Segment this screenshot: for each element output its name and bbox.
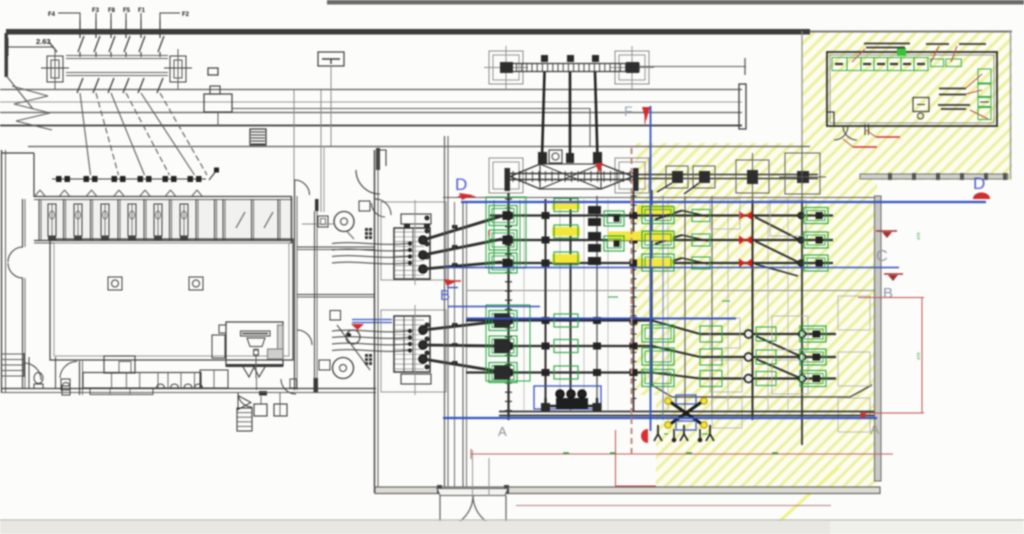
- vent dark grid: [365, 228, 368, 231]
- yard top inner line: [443, 197, 874, 199]
- road line 1: [0, 89, 742, 91]
- yard thin vertical x712: [711, 196, 713, 412]
- cell ground mark 4: [128, 237, 136, 242]
- building east wall: [374, 150, 376, 493]
- new bay stems: [673, 429, 675, 438]
- yellow hatch streak below yard wall: [770, 468, 838, 530]
- corridor wall: [294, 180, 296, 390]
- room door arc x80: [60, 361, 77, 378]
- pad square 1: [254, 404, 267, 416]
- lower circuit row 2 right: [700, 356, 836, 358]
- feeder drop line 2 to cell: [96, 93, 119, 175]
- transformer T2 LV cable bundle: [332, 330, 408, 332]
- new bay yellow dots: [665, 398, 671, 404]
- bus blobs column A: [504, 212, 513, 219]
- north boundary line over yellow area: [810, 31, 1012, 33]
- cell breaker 5: [163, 176, 169, 182]
- leader F2: [160, 13, 180, 20]
- small road box: [208, 68, 218, 75]
- empty cell slash 2: [264, 212, 273, 228]
- hall column 2: [189, 277, 203, 290]
- yard thin vertical x685: [684, 196, 686, 412]
- bottom table strip: [0, 521, 1024, 534]
- cell divider 5: [143, 199, 145, 240]
- red leader mesa: [970, 110, 988, 119]
- green marker square: [897, 48, 906, 56]
- red dim horizontal y297: [858, 297, 924, 299]
- NE entrance door arc: [356, 170, 380, 194]
- red leader top 1: [852, 49, 865, 62]
- arrow marker at breaker row end: [209, 171, 216, 180]
- leader F8: [110, 13, 112, 20]
- conduit elbow right: [588, 398, 597, 406]
- svg-text:C: C: [876, 248, 888, 265]
- transformer T2 bushings: [419, 326, 427, 334]
- cell breaker 1: [56, 176, 62, 182]
- dark Y feet under new bay: [654, 425, 662, 441]
- cell breaker 3: [112, 176, 118, 182]
- cell transformer 6: [180, 204, 188, 236]
- feeder drop line 6 to cell: [160, 93, 207, 175]
- blue line y267: [445, 267, 899, 269]
- leader F5: [125, 13, 127, 20]
- lower circuit row 1 right: [700, 333, 836, 335]
- fuse switch 4 upper: [124, 36, 130, 52]
- road vertical line a: [320, 90, 322, 212]
- leader F1: [140, 13, 142, 20]
- svg-text:B: B: [440, 287, 450, 304]
- cells bottom wall: [34, 240, 292, 242]
- cell ground mark 1: [48, 237, 56, 242]
- transformer T1 conservator: [401, 214, 431, 224]
- level marker above C: [876, 230, 897, 232]
- control room chair: [918, 113, 924, 119]
- cell breaker 2: [84, 176, 90, 182]
- fuse switch 1 lower: [77, 78, 83, 93]
- insulator dots column D upper: [798, 213, 804, 219]
- gantry G2 brace left: [510, 164, 540, 177]
- annex terminal dots upper: [425, 216, 429, 220]
- washroom hood trapezoid: [247, 338, 265, 347]
- cell transformer 5: [154, 204, 162, 236]
- new bay colorful cross: [666, 399, 706, 427]
- lower circuit row 3 right: [700, 377, 836, 379]
- cell door mark 7: [192, 190, 202, 196]
- conductor end fitting 1: [538, 152, 547, 164]
- yard faint foundation rails: [523, 199, 525, 410]
- pump circle with dot: [346, 330, 360, 344]
- blue line y318: [466, 318, 736, 320]
- boundary thick wall band (north): [6, 29, 810, 35]
- cell divider 7: [195, 199, 197, 240]
- leader F4: [58, 13, 80, 20]
- feeder line 1 upper: [79, 20, 81, 38]
- red annotation text door 1: [876, 136, 900, 138]
- fuse switch 3 upper: [109, 36, 115, 52]
- cell ground mark 2: [74, 237, 82, 242]
- fuse switch 2 lower: [93, 78, 99, 93]
- duct line NE: [302, 223, 334, 225]
- red arrow on conductor: [595, 163, 603, 173]
- red dim line y454: [471, 453, 893, 455]
- level marker above B: [884, 273, 903, 275]
- annotation text top 3: [959, 43, 986, 45]
- gantry G1 footing left: [489, 51, 523, 84]
- mid yard line: [466, 290, 874, 292]
- road line 3: [0, 125, 742, 127]
- annex door arc: [375, 199, 391, 215]
- sink fixture bottom-left: [61, 379, 70, 390]
- road break zigzag: [12, 86, 52, 130]
- feeder line 5 upper: [140, 20, 142, 38]
- road vertical line b: [293, 90, 295, 180]
- room wall x80: [79, 361, 81, 395]
- beam column square 3: [736, 160, 769, 193]
- transformer T2 HV lines: [423, 321, 502, 330]
- feeder line 4 upper: [125, 20, 127, 38]
- svg-text:470: 470: [916, 232, 921, 240]
- red dim corner at yellow edge: [616, 430, 657, 486]
- panel text marks: [835, 63, 843, 65]
- junction box with circle: [549, 150, 562, 163]
- bench band: [83, 373, 201, 389]
- west stairs: [2, 353, 24, 355]
- green equipment cluster U2: [554, 199, 578, 212]
- transformer T2 conservator: [401, 374, 431, 384]
- inner wall x315: [314, 211, 316, 393]
- red leader top 2: [931, 46, 939, 62]
- transformer T1 rail: [414, 200, 416, 285]
- green equipment cluster U7 (transformer bay lower): [489, 311, 517, 331]
- pad square 2: [274, 404, 287, 416]
- conductor drop 3: [595, 72, 598, 158]
- washroom door arc SE: [281, 379, 296, 394]
- beam tower square 2: [693, 166, 715, 188]
- green cluster U1 verticals: [493, 200, 495, 266]
- cell divider 1: [38, 199, 40, 240]
- transformer T2 body: [394, 316, 430, 372]
- door centre verticals: [472, 450, 474, 496]
- gantry G2 footing right: [615, 158, 649, 193]
- cells end wall: [291, 197, 293, 243]
- fuse switch 2 upper: [94, 36, 100, 52]
- cell breaker 6: [188, 176, 194, 182]
- annex terminal dots lower: [425, 323, 429, 327]
- lower circuit row 1 left: [466, 319, 652, 321]
- cell door mark 4: [114, 190, 124, 196]
- cell transformer 2: [74, 204, 82, 236]
- washroom left box small: [219, 325, 226, 333]
- lower circuit row 3 left: [466, 371, 652, 373]
- dimension 2.63 line with arrows: [8, 46, 54, 48]
- svg-text:F2: F2: [182, 12, 190, 18]
- svg-text:D: D: [455, 175, 467, 194]
- conductor drop 2: [569, 72, 572, 158]
- red leader door 2: [843, 139, 853, 147]
- svg-text:F1: F1: [138, 8, 146, 14]
- inner paving boundary with chamfers: [652, 190, 872, 397]
- svg-text:A: A: [870, 421, 880, 437]
- breaker row line: [52, 178, 206, 180]
- lower tie bus double line: [499, 411, 874, 413]
- annotation text right a: [939, 88, 966, 90]
- yard south double door arcs: [440, 496, 473, 528]
- new bay blue frames: [676, 395, 696, 404]
- west boundary wall vertical: [5, 33, 9, 77]
- red half disc at blue line bottom: [641, 429, 648, 443]
- yard fence second pair: [462, 202, 464, 487]
- hatched duct box: [250, 129, 266, 145]
- bench chair arcs: [157, 384, 165, 388]
- kerb line building north: [28, 146, 810, 148]
- annotation text mesa: [938, 104, 970, 106]
- yard beam row east: [638, 174, 818, 176]
- cells region tint: [40, 199, 291, 240]
- empty cell slash 1: [236, 212, 245, 228]
- insulator assembly right: [170, 56, 186, 82]
- green equipment cluster U1 (transformer bay upper): [489, 206, 517, 226]
- bus column A with ticks: [507, 193, 509, 420]
- yard vertical x545: [545, 199, 547, 410]
- signal box with flag: [204, 94, 232, 112]
- fuse switch 5 upper: [139, 36, 145, 52]
- cell door mark 6: [166, 190, 176, 196]
- porch stairs below building: [237, 408, 252, 431]
- bottom table edge line: [0, 519, 1024, 521]
- svg-text:A: A: [498, 424, 507, 439]
- red arrow under D left: [459, 193, 473, 200]
- cell door mark 3: [87, 190, 97, 196]
- svg-text:D: D: [973, 174, 985, 193]
- fence posts: [888, 173, 892, 180]
- feeder drop line 4 to cell: [126, 93, 170, 175]
- control building door arcs: [834, 126, 848, 140]
- cable route line from signal box: [232, 109, 590, 147]
- footing squares right yard: [710, 199, 740, 229]
- dark wall tick at corridor door: [315, 199, 319, 211]
- diagonal pipe: [337, 325, 370, 370]
- fuse switch 3 lower: [108, 78, 114, 93]
- feeder drop line 1 to cell: [80, 93, 91, 175]
- cell door mark 1: [35, 190, 45, 196]
- cells top wall: [34, 196, 292, 198]
- yard north fence: [860, 174, 1008, 179]
- yellow area left edge line: [801, 31, 803, 146]
- annex box lower: [381, 310, 446, 392]
- conductor clamps top: [541, 55, 548, 62]
- counter box in hall: [104, 356, 135, 373]
- right rooms divider wall 2: [297, 294, 375, 296]
- W basin mark: [243, 367, 265, 377]
- insulator assembly left: [47, 56, 63, 82]
- gantry G2 footing left: [489, 158, 523, 193]
- blue line y420: [443, 417, 877, 419]
- red dim vertical x922: [921, 298, 923, 414]
- control room table: [913, 98, 929, 112]
- yellow highlighted bus sections mid: [608, 232, 673, 241]
- red dim horizontal y413: [860, 412, 924, 414]
- corridor door arc: [295, 180, 310, 195]
- blue line y306: [448, 306, 540, 308]
- svg-text:F: F: [624, 103, 633, 119]
- fuse switch 6 upper: [158, 36, 164, 52]
- blue dash below red near T1: [447, 287, 458, 289]
- svg-text:2.63: 2.63: [36, 37, 51, 46]
- yard south door jambs: [439, 496, 441, 529]
- green equipment cluster U12: [800, 326, 826, 342]
- beam tower square 1: [666, 166, 688, 188]
- fan unit lower: [333, 358, 354, 379]
- pad drop line: [279, 393, 281, 416]
- T2 line clamps: [452, 323, 458, 327]
- toilet fixture bottom-left: [34, 373, 43, 384]
- NE entrance door post: [376, 148, 380, 170]
- red level triangle SE: [351, 324, 364, 330]
- red leader door 1: [866, 130, 876, 137]
- building top-left wall: [2, 152, 35, 154]
- feeder drop line 5 to cell: [141, 93, 195, 175]
- washroom valve: [253, 350, 258, 355]
- new bay green ticks: [664, 433, 668, 435]
- cell divider 11: [277, 199, 279, 240]
- cell transformer 1: [48, 204, 56, 236]
- right wall green cabinets: [978, 69, 991, 83]
- porch door arc: [238, 393, 252, 407]
- cell door mark 5: [140, 190, 150, 196]
- bus column B with ticks: [633, 191, 635, 412]
- survey marker: [318, 52, 344, 66]
- blue thin vertical x663: [662, 196, 664, 420]
- bus column D: [801, 200, 803, 445]
- gantry G2 beam: [510, 173, 633, 175]
- marker drop line: [330, 66, 332, 146]
- upper jumper diagonals: [655, 211, 682, 220]
- feeder line 2 upper: [95, 20, 97, 38]
- upper circuit row 3: [490, 262, 833, 264]
- svg-text:F4: F4: [48, 12, 56, 18]
- annotation text top 2: [926, 43, 949, 45]
- red half disc under D right: [973, 193, 990, 200]
- cell ground mark 5: [154, 237, 162, 242]
- locker boxes left of washroom: [200, 370, 228, 388]
- red dash near T1: [444, 280, 461, 282]
- road end cap: [739, 84, 746, 129]
- door threshold dark: [259, 391, 267, 396]
- control building inner wall: [830, 55, 994, 123]
- cell door mark 2: [60, 190, 70, 196]
- green box pair right of panels: [931, 59, 944, 67]
- yard fence west pair: [444, 136, 446, 487]
- transformer T1 bushings: [419, 236, 427, 244]
- cell transformer 4: [128, 204, 136, 236]
- beam column square 4: [785, 153, 820, 194]
- T1 line clamps: [452, 225, 458, 229]
- panel row green: [832, 58, 847, 71]
- road line 2: [0, 112, 742, 114]
- gantry G1 end block left: [500, 62, 513, 73]
- cell divider 3: [90, 199, 92, 240]
- washroom outline: [226, 322, 283, 366]
- west lower door arc: [24, 363, 41, 380]
- cell divider 2: [63, 199, 65, 240]
- conductor end fitting 3: [593, 152, 602, 164]
- pump box beside fan: [318, 216, 328, 227]
- annex box upper: [381, 202, 446, 280]
- insulator dots column D lower: [799, 331, 806, 338]
- red leader top 3: [951, 46, 957, 62]
- gantry G2 brace right: [601, 164, 633, 177]
- yellow hatched switchyard paving (top-right control area + main yard): [636, 31, 1012, 487]
- right rooms divider wall 1: [297, 246, 375, 248]
- red dim horizontal y505: [516, 505, 831, 507]
- gantry G1 footing right: [615, 51, 649, 84]
- washroom right L wall: [278, 325, 284, 349]
- fuse switch 6 lower: [157, 78, 163, 93]
- partition wall bottom-left: [28, 357, 30, 388]
- yellow area right edge line: [1010, 31, 1012, 179]
- cell divider 6: [169, 199, 171, 240]
- gantry G1 lattice beam: [504, 64, 639, 72]
- cell divider 8: [214, 199, 216, 240]
- yard south wall: [375, 487, 880, 494]
- svg-text:470: 470: [916, 352, 921, 360]
- gantry G2 X lattice: [540, 164, 601, 189]
- washroom left box: [212, 335, 225, 358]
- transformer T2 rail: [414, 305, 416, 395]
- upper circuit row 2: [490, 239, 833, 241]
- insulator posts column C upper: [745, 330, 753, 338]
- row transition diagonal 3: [652, 373, 700, 379]
- green tiny dim marks bottom: [563, 452, 569, 454]
- red dim tick text left: [488, 231, 490, 236]
- transformer T1 HV lines: [423, 216, 502, 240]
- green equipment cluster U8: [554, 314, 578, 327]
- breaker column x594 blobs: [588, 206, 601, 214]
- blue section line D-D: [461, 201, 986, 203]
- conductor drop 1: [542, 72, 545, 158]
- red annotation text door 2: [853, 146, 877, 148]
- green equipment cluster U5: [692, 210, 710, 222]
- annex wall step: [378, 150, 386, 166]
- control building outer wall: [827, 52, 997, 126]
- small fixture SW of room: [290, 379, 297, 388]
- gantry G1 end block right: [626, 62, 639, 73]
- upper circuit row 1: [490, 214, 833, 216]
- toilet fixture 2: [62, 386, 70, 395]
- hall column 1: [108, 277, 122, 290]
- leader F3: [95, 13, 97, 20]
- yard south door posts: [437, 485, 442, 494]
- annotation text top 1: [864, 43, 910, 45]
- small box SE room: [330, 311, 341, 321]
- photo edge dark line top: [327, 0, 1024, 5]
- red dot near A: [861, 413, 866, 418]
- fan unit upper: [334, 212, 354, 232]
- blue vertical line: [650, 106, 652, 431]
- fuse switch 4 lower: [123, 78, 129, 93]
- door frame lines below wall: [864, 124, 866, 135]
- fan2 side box: [319, 360, 330, 370]
- building west wall: [1, 150, 3, 393]
- feeder drop line 3 to cell: [111, 93, 145, 175]
- room door arc mid: [297, 330, 312, 345]
- cell breaker 4: [138, 176, 144, 182]
- svg-text:B: B: [883, 285, 893, 302]
- yard east wall band: [875, 196, 882, 481]
- yellow highlighted bus sections upper left: [552, 201, 580, 210]
- fuse switch 1 upper: [78, 36, 84, 52]
- gantry G2 end post left: [505, 168, 511, 191]
